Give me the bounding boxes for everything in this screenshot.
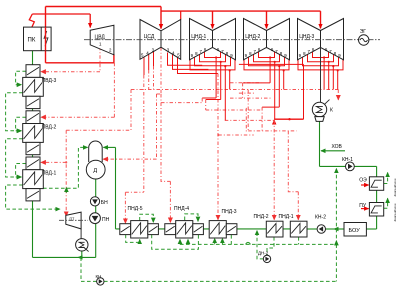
wire main steam PK->CVD, lightning riser bbox=[29, 14, 34, 27]
wire CSD extr 5 drop bbox=[143, 56, 145, 75]
wire OE vent bbox=[384, 173, 388, 184]
svg-text:Д: Д bbox=[93, 168, 97, 174]
wire extraction 2 drop bbox=[113, 63, 115, 117]
wire PND-2 header riser bbox=[303, 64, 305, 119]
wire PND-2 header solid bbox=[274, 118, 303, 120]
condenser K bbox=[312, 102, 326, 116]
LP heater PND-2 bbox=[266, 221, 283, 237]
generator EG bbox=[359, 35, 369, 45]
wire drain loop PVD-3 bbox=[16, 71, 26, 85]
wire PND-5 feed corner bbox=[125, 191, 143, 193]
wire bypass header to condenser bbox=[131, 89, 338, 91]
wire PND-4 feed jog bbox=[161, 94, 170, 181]
wire hot reheat top header bbox=[46, 6, 162, 8]
wire crossover drop into CND-1 bbox=[212, 11, 214, 28]
wire PT to its condenser bbox=[80, 229, 82, 239]
wire PND-2 feed drop bbox=[273, 120, 275, 219]
svg-text:ЦНД-2: ЦНД-2 bbox=[245, 34, 260, 40]
wire deaerator steam drop bbox=[156, 94, 158, 159]
svg-text:КН-1: КН-1 bbox=[342, 157, 353, 163]
wire ejector steam arrow OE bbox=[361, 184, 369, 186]
wire KN-2 to PND-1 bbox=[307, 228, 317, 230]
wire CSD-CND1 connector b bbox=[173, 55, 209, 70]
svg-text:ПНД-2: ПНД-2 bbox=[254, 214, 269, 220]
wire main steam drop into CVD with arrow bbox=[89, 14, 91, 28]
svg-text:ПН: ПН bbox=[102, 217, 110, 223]
wire PT condenser drain bbox=[78, 251, 82, 257]
wire cascade arrow PND-3 a bbox=[214, 238, 216, 244]
wire PND-3 header bbox=[206, 109, 262, 111]
wire PND-1 header bbox=[248, 130, 296, 132]
wire cascade arrow PND-4 b bbox=[187, 239, 189, 244]
wire cold reheat bottom run bbox=[46, 62, 115, 64]
svg-text:ЦНД-1: ЦНД-1 bbox=[191, 34, 206, 40]
wire PND-1 feed drop2 bbox=[297, 192, 299, 220]
HP heater ПВД-3 bbox=[26, 65, 40, 78]
wire CSD extr 4 drop dashdot bbox=[148, 70, 150, 90]
LP turbine ЦНД-2 bbox=[244, 19, 290, 60]
svg-text:ХОВ: ХОВ bbox=[332, 144, 343, 150]
wire drain arrow mid bbox=[335, 241, 337, 246]
LP heater PND-3 bbox=[209, 221, 226, 238]
pump BN bbox=[90, 197, 99, 206]
wire PND-5 top loop bbox=[140, 214, 154, 222]
wire drain up arrow near PT bbox=[65, 187, 67, 192]
LP heater PND-5 bbox=[120, 224, 131, 235]
wire PND-4 top loop bbox=[185, 214, 198, 222]
wire crossover drop into CND-2 bbox=[266, 11, 268, 28]
wire extraction web under CND-1 bbox=[205, 51, 221, 57]
wire CSD extr 3 drop bbox=[153, 52, 155, 67]
svg-text:БН: БН bbox=[101, 200, 108, 206]
seal heater PU bbox=[369, 203, 383, 217]
LP heater PND-1 bbox=[290, 221, 307, 237]
wire hot reheat drop into CSD bbox=[160, 7, 162, 29]
wire crossover drop into CND-3 bbox=[320, 11, 322, 28]
svg-text:ЦНД-3: ЦНД-3 bbox=[299, 34, 314, 40]
deaerator column D bbox=[89, 141, 103, 162]
pump DN-2 bbox=[263, 255, 270, 262]
wire main steam header y=14 bbox=[32, 13, 90, 15]
wire deaerator downcomer bbox=[95, 179, 97, 257]
wire condensate to KN-1 run bbox=[320, 165, 377, 167]
wire PVD-1 feed tee bbox=[41, 161, 66, 163]
HP turbine CVD bbox=[90, 25, 114, 55]
wire drain run y244 bbox=[180, 243, 336, 245]
svg-text:ДН-2: ДН-2 bbox=[258, 250, 269, 255]
wire drain loop PVD-1 bbox=[16, 164, 26, 178]
wire drain riser right bbox=[335, 244, 337, 281]
wire BOU-KN2 segment bbox=[326, 228, 335, 230]
wire drain loop PVD-2 bbox=[16, 117, 26, 131]
wire condensate riser to deaerator bbox=[115, 147, 117, 229]
feed pump turbine PT bbox=[66, 212, 81, 229]
wire CSD waist drop to deaerator header bbox=[160, 47, 162, 94]
svg-text:ПВД-3: ПВД-3 bbox=[42, 78, 57, 84]
wire PND-5 bottom loop bbox=[126, 235, 140, 243]
wire extraction web under CND-3 bbox=[313, 51, 329, 57]
boiler PK box bbox=[24, 27, 52, 51]
wire drain dash c bbox=[230, 97, 272, 99]
wire PND-1 feed drop bbox=[288, 131, 298, 192]
wire cascade arrow PND-4 a bbox=[179, 239, 181, 244]
svg-text:в конденсатор: в конденсатор bbox=[394, 204, 397, 222]
wire extraction 1 to PVD-3 bbox=[41, 71, 100, 73]
wire PVD column riser a bbox=[32, 155, 34, 157]
svg-text:ПНД-5: ПНД-5 bbox=[128, 206, 143, 212]
wire feed to boiler bbox=[32, 51, 34, 63]
pump KN bbox=[97, 278, 104, 285]
wire OE to PU bbox=[376, 190, 378, 202]
shaft axis line bbox=[84, 39, 380, 41]
wire drain dash riser2 bbox=[247, 90, 249, 131]
LP turbine ЦНД-1 bbox=[190, 19, 236, 60]
wire PND-3 drain drop bbox=[230, 235, 232, 244]
wire drain KN dashed run a bbox=[81, 280, 97, 282]
wire seal steam arrow PU bbox=[361, 208, 369, 210]
svg-text:ПК: ПК bbox=[28, 38, 36, 44]
wire drain KN dashed down bbox=[80, 257, 82, 281]
wire extraction 1 drop bbox=[99, 47, 101, 72]
wire PVD column riser b bbox=[32, 109, 34, 111]
svg-text:К: К bbox=[330, 108, 333, 114]
wire drain dash a bbox=[230, 82, 261, 84]
wire drop to OE bbox=[376, 166, 378, 176]
wire extraction 2 to PVD-2 bbox=[41, 116, 114, 118]
wire CND-3 to condenser bbox=[320, 47, 322, 102]
wire drain dash riser bbox=[245, 108, 247, 133]
svg-text:ОЭ: ОЭ bbox=[359, 178, 367, 184]
pump KN-1 bbox=[346, 162, 355, 171]
hop symbol on drain line bbox=[246, 242, 251, 244]
wire PND-3 feed drop bbox=[217, 74, 219, 220]
wire PND-2 header ext bbox=[225, 119, 274, 121]
svg-text:ПУ: ПУ bbox=[359, 203, 367, 209]
wire BOU to KN-2 arrow bbox=[334, 228, 344, 230]
IP turbine CSD bbox=[140, 20, 181, 60]
pump PN bbox=[90, 213, 101, 224]
wire feed riser to PVD-1 bbox=[32, 196, 34, 257]
svg-text:ПВД-1: ПВД-1 bbox=[42, 171, 57, 177]
wire CND-2/3 connector bbox=[239, 63, 304, 65]
main ejector OE bbox=[369, 177, 383, 191]
wire DN-2 arrow into line bbox=[256, 231, 258, 237]
svg-text:ПНД-4: ПНД-4 bbox=[174, 206, 189, 212]
HP heater ПВД-2 bbox=[26, 111, 40, 124]
wire CSD extr 4 drop bbox=[148, 54, 150, 70]
junction PT/PVD-1 tee bbox=[65, 161, 67, 163]
HP heater ПВД-1 bbox=[26, 157, 40, 170]
wire into BOU right bbox=[366, 228, 376, 230]
wire PT branch run bbox=[66, 129, 131, 131]
svg-text:ЭГ: ЭГ bbox=[360, 29, 367, 35]
wire PT branch riser bbox=[130, 90, 132, 131]
wire condensate from condenser bbox=[319, 121, 321, 166]
svg-text:КН: КН bbox=[96, 274, 102, 279]
wire reheat riser through boiler bbox=[45, 7, 47, 63]
wire cold reheat CVD exhaust down bbox=[113, 54, 115, 63]
wire cascade arrow PND-3 b bbox=[221, 238, 223, 244]
wire CSD extr 5 drop dashdot to PND-5 corner bbox=[143, 75, 145, 192]
LP heater PND-4 bbox=[165, 224, 176, 235]
wire drain KN dashed run b bbox=[104, 280, 336, 282]
PT axis bbox=[59, 219, 88, 221]
wire DN-2 outlet bbox=[257, 232, 263, 259]
wire PND-4 header bbox=[161, 102, 202, 104]
svg-text:ПНД-3: ПНД-3 bbox=[222, 209, 237, 215]
wire PND-5 feed drop arrow bbox=[124, 192, 126, 223]
wire PVD column riser c bbox=[32, 62, 34, 64]
wire main condensate line bbox=[116, 228, 307, 230]
wire PND-4 drain drop bbox=[152, 235, 199, 250]
svg-text:ПНД-1: ПНД-1 bbox=[279, 214, 294, 220]
wire drain dash d bbox=[218, 134, 253, 136]
svg-text:БОУ: БОУ bbox=[349, 228, 361, 234]
wire PT branch drop bbox=[65, 130, 67, 216]
pump KN-2 bbox=[317, 225, 325, 233]
svg-text:ЦСД: ЦСД bbox=[144, 34, 155, 40]
wire CSD exhaust riser bbox=[180, 11, 182, 19]
wire bypass drop into condenser bbox=[337, 90, 339, 100]
wire PND-1 drain drop bbox=[298, 237, 300, 244]
wire feed suction run bbox=[33, 256, 96, 258]
wire CSD-CND1 connector a bbox=[168, 53, 203, 66]
wire CSD-CND1 connector c bbox=[178, 57, 219, 74]
wire DN-2 suction bbox=[267, 237, 274, 255]
wire PVD-1 drain to deaerator bbox=[37, 147, 88, 188]
wire XOB makeup line bbox=[321, 150, 345, 152]
wire drain dash b bbox=[239, 92, 255, 94]
wire PU down bbox=[376, 215, 378, 229]
wire extraction web under CND-2 bbox=[259, 51, 275, 57]
wire deaerator steam jog bbox=[157, 93, 162, 95]
wire deaerator steam arrow into D bbox=[103, 158, 156, 160]
wire drain riser upper bbox=[335, 169, 337, 245]
PT condenser bbox=[76, 239, 88, 251]
junction PND-2 header dot bbox=[288, 118, 290, 120]
svg-text:в конденсатор: в конденсатор bbox=[394, 179, 397, 197]
svg-text:КН-2: КН-2 bbox=[315, 214, 326, 220]
wire PND-4 feed drop bbox=[169, 181, 171, 222]
wire condensate into deaerator head bbox=[103, 146, 115, 148]
wire PND-2 up arrow bbox=[273, 120, 275, 124]
wire CSD extr 3 drop dashdot bbox=[153, 66, 155, 90]
svg-text:ПВД-2: ПВД-2 bbox=[42, 124, 57, 130]
LP turbine ЦНД-3 bbox=[298, 19, 344, 60]
polishing unit BOU bbox=[344, 223, 366, 237]
wire IP->LP crossover header bbox=[161, 10, 321, 12]
wire PU vent bbox=[384, 198, 388, 208]
